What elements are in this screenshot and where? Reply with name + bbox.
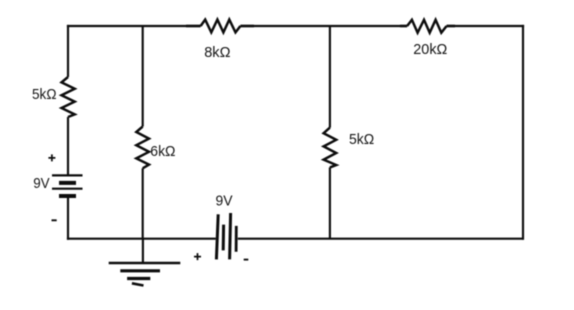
resistor R5 20k lead left bbox=[400, 25, 407, 28]
ground bar 3 bbox=[127, 277, 150, 280]
wire right-middle rail upper (5k branch) bbox=[329, 26, 331, 128]
battery V1 9V plate long top bbox=[52, 174, 83, 176]
resistor R1 5k (left) bbox=[62, 77, 75, 117]
wire left rail between R1 and battery V1 bbox=[67, 117, 69, 175]
battery V1 9V plate long middle bbox=[52, 188, 83, 190]
wire bottom bus right segment bbox=[238, 238, 524, 240]
svg-text:9V: 9V bbox=[33, 176, 50, 192]
wire middle rail lower bbox=[142, 168, 144, 238]
resistor R3 6k (middle) bbox=[136, 127, 149, 169]
wire middle rail upper (6k branch) bbox=[142, 26, 144, 127]
battery V2 9V bar short right bbox=[235, 226, 238, 252]
svg-text:5kΩ: 5kΩ bbox=[349, 132, 374, 148]
ground bar 1 bbox=[109, 262, 181, 265]
wire bottom bus left segment bbox=[67, 238, 216, 240]
svg-text:6kΩ: 6kΩ bbox=[150, 144, 175, 160]
resistor R4 5k (right middle) bbox=[324, 128, 337, 168]
resistor R2 8k (top middle) bbox=[201, 20, 241, 33]
wire right rail bbox=[522, 25, 524, 240]
wire left rail upper bbox=[67, 25, 69, 77]
wire top bus right segment bbox=[447, 25, 524, 27]
battery V2 minus sign bbox=[244, 259, 249, 261]
ground bar 4 bbox=[132, 283, 144, 285]
wire top bus middle segment bbox=[240, 25, 407, 27]
battery V1 plus sign bbox=[48, 154, 55, 161]
battery V2 9V bar long right bbox=[230, 213, 231, 259]
svg-text:20kΩ: 20kΩ bbox=[413, 42, 447, 58]
svg-text:5kΩ: 5kΩ bbox=[32, 87, 57, 103]
svg-text:8kΩ: 8kΩ bbox=[204, 45, 230, 61]
resistor R2 8k lead right bbox=[240, 25, 254, 28]
resistor R2 8k lead left bbox=[186, 25, 201, 28]
battery V2 9V bar long left bbox=[216, 214, 218, 259]
battery V1 9V plate short thick bottom bbox=[59, 194, 76, 198]
battery V1 minus sign bbox=[52, 219, 57, 221]
battery V1 9V plate short thick bbox=[59, 181, 76, 185]
resistor R5 20k lead right bbox=[447, 25, 455, 28]
battery V2 9V bar short bbox=[222, 225, 225, 251]
ground bar 2 bbox=[120, 269, 160, 272]
resistor R5 20k (top right) bbox=[407, 20, 447, 33]
svg-text:9V: 9V bbox=[216, 193, 233, 209]
wire top bus left segment bbox=[67, 25, 201, 27]
battery V2 plus sign bbox=[194, 253, 201, 260]
wire right-middle rail lower bbox=[329, 167, 331, 238]
wire ground stub bbox=[142, 239, 144, 263]
wire left rail lower bbox=[67, 196, 69, 240]
